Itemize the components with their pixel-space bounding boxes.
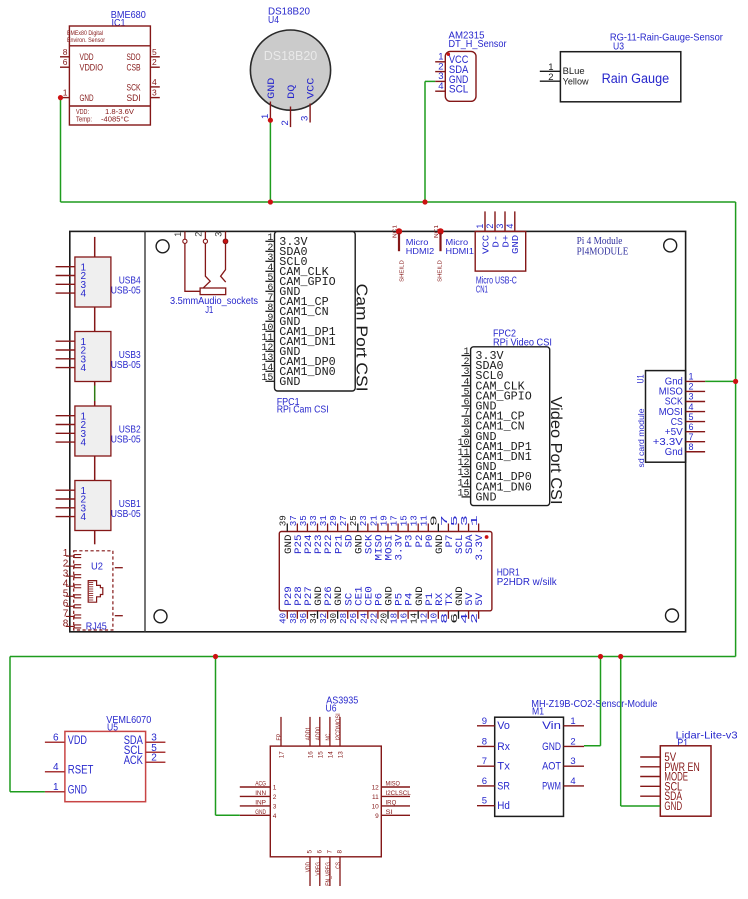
M1 pin 2 GND [542,736,584,752]
U2 pin 5 [63,588,81,599]
FPC2 pin 6 GND [462,398,497,414]
svg-text:P1: P1 [677,737,688,749]
svg-text:5: 5 [152,47,157,57]
svg-text:4: 4 [570,776,575,787]
FPC2 pin 3 SCL0 [462,367,504,383]
svg-text:3: 3 [495,224,505,229]
sensor AM2315 DT_H_Sensor title [449,30,507,50]
IC1 pin 3 SDI [127,88,160,104]
svg-text:BMEx80 Digital: BMEx80 Digital [67,30,103,37]
svg-text:4: 4 [81,363,87,374]
connector FPC1 body [275,231,356,391]
svg-text:VREG: VREG [315,862,322,876]
U5 pin 3 SDA [124,733,166,747]
FPC1 pin 3 SCL0 [265,253,307,269]
HDR1 pin 3 SDA (top) [459,515,476,554]
connector J1 3.5mm audio sockets label [170,295,258,316]
svg-text:2: 2 [689,382,694,392]
module PI4MODULE Pi 4 board outline [70,231,686,631]
HDR1 pin 35 P24 (top) [298,515,315,554]
wire GND to U1 pin1 [705,380,736,382]
svg-text:6: 6 [63,57,68,67]
svg-text:SCK: SCK [127,82,142,93]
connector P1 body [660,746,711,816]
svg-text:RPi Cam CSI: RPi Cam CSI [277,404,329,416]
svg-text:GND: GND [266,78,278,99]
U6 pin 17 EP (top) [276,717,285,758]
wire GND drop to M1 [600,657,602,746]
U5 pin 5 SCL [124,743,166,757]
sensor U6 AS3935 title [326,695,359,715]
FPC2 pin 2 SDA0 [462,357,504,373]
wire GND into U6 pin4 [216,814,240,816]
connector FPC2 body [471,347,550,506]
HDR1 pin 2 5V (bottom) [469,592,486,624]
connector CN1 label [476,274,517,295]
svg-text:INP: INP [255,799,266,806]
svg-text:1: 1 [570,716,575,727]
IC1 pin 6 VDDIO [60,57,103,73]
wire GND bottom bus horizontal [10,656,736,658]
CN1 pin 2 D- [485,211,501,247]
wire GND into P1 GND pin [621,805,661,807]
svg-text:RG-11-Rain-Gauge-Sensor: RG-11-Rain-Gauge-Sensor [610,31,723,43]
connector Micro HDMI1 pin NC1 [434,225,444,282]
AM2315 pin 2 SDA [435,61,469,76]
FPC2 pin 1 3.3V [462,347,504,363]
svg-text:6: 6 [53,733,59,744]
HDR1 pin 11 P0 (top) [419,515,436,548]
svg-text:-4085°C: -4085°C [101,115,129,123]
U6 pin 16 ADD1 (top) [305,717,314,758]
svg-text:1: 1 [63,88,68,98]
svg-text:2: 2 [152,57,157,67]
connector Micro HDMI1 label [446,238,474,256]
connector FPC1 reference label [277,396,329,416]
svg-text:M1: M1 [532,706,544,718]
svg-text:Vin: Vin [542,720,561,732]
U1 pin 2 MISO [659,382,705,398]
svg-text:2: 2 [273,794,277,801]
svg-text:7: 7 [689,432,694,442]
HDR1 pin 24 CE0 (bottom) [358,586,375,624]
M1 pin 1 Vin [542,716,584,732]
svg-text:1: 1 [475,224,485,229]
svg-text:3: 3 [152,88,157,98]
HDR1 pin 33 P23 (top) [308,515,325,554]
sensor AM2315 body [445,51,476,101]
svg-text:4: 4 [81,289,87,300]
svg-text:SDI: SDI [127,93,141,104]
FPC1 pin 7 CAM1_CP [265,293,328,309]
sensor U6 body [270,746,381,857]
HDR1 pin 1 3.3V (top) [469,515,486,561]
HDR1 pin 17 3.3V (top) [388,515,405,560]
mounting hole top-right [664,239,677,252]
FPC1 pin 10 CAM1_DP1 [261,323,335,339]
svg-text:8: 8 [482,736,487,747]
svg-text:U4: U4 [268,14,279,26]
svg-text:15: 15 [317,751,324,758]
svg-text:1.8-3.6V: 1.8-3.6V [105,109,134,116]
svg-text:5: 5 [307,850,314,854]
svg-text:1: 1 [273,785,277,792]
svg-text:1: 1 [53,782,59,793]
HDR1 pin 28 SC (bottom) [338,593,355,624]
svg-text:1: 1 [469,515,480,527]
HDR1 pin 12 P1 (bottom) [419,593,436,624]
svg-text:U6: U6 [326,703,337,715]
svg-text:11: 11 [372,794,379,801]
AM2315 pin 3 GND [435,71,468,86]
svg-text:SDO: SDO [127,52,141,63]
mounting hole bottom-left [154,610,167,623]
svg-text:8: 8 [63,47,68,57]
IC1 pin 8 VDD [60,47,94,63]
svg-text:GND: GND [542,741,561,753]
svg-text:INN: INN [255,790,266,797]
HDR1 pin 27 SD (top) [338,515,355,547]
U1 pin 7 +3.3V [653,432,705,448]
J1 pin 3 with switch contact [214,231,228,282]
HDR1 pin 36 P27 (bottom) [298,586,315,624]
svg-text:4: 4 [152,77,157,87]
svg-text:USB-05: USB-05 [111,434,141,446]
svg-text:8: 8 [63,619,69,630]
FPC1 pin 12 GND [261,343,300,359]
svg-text:9: 9 [482,716,487,727]
svg-text:VDDIO: VDDIO [80,63,104,74]
HDR1 pin 32 P26 (bottom) [318,586,335,624]
M1 pin 3 AOT [542,756,584,772]
U6 pin 1 ACG (left) [240,781,277,792]
svg-text:SR: SR [497,780,510,792]
svg-text:2: 2 [151,753,157,764]
sensor U3 RG-11 Rain Gauge title [610,31,723,52]
svg-text:NC1: NC1 [434,225,440,238]
sensor U4 DS18B20 body [250,30,330,110]
U2 pin 8 [63,619,81,630]
FPC1 pin 14 CAM1_DN0 [261,363,335,379]
svg-text:5V: 5V [475,592,486,606]
HDR1 pin 14 GND (bottom) [409,586,426,624]
svg-text:ACK: ACK [124,755,143,767]
svg-text:2: 2 [469,612,480,624]
HDR1 pin 7 P7 (top) [439,515,456,547]
HDR1 pin 34 GND (bottom) [308,586,325,624]
HDR1 pin 9 GND (top) [429,515,446,554]
svg-text:9: 9 [375,813,379,820]
sensor U3 body [560,52,680,102]
junction at U4 GND pin [268,118,273,123]
svg-text:10: 10 [372,803,380,810]
svg-text:VCC: VCC [306,78,318,99]
svg-text:Yellow: Yellow [563,76,589,87]
junction P1 drop on bottom bus [618,654,623,659]
svg-text:8: 8 [689,442,694,452]
svg-text:7: 7 [482,756,487,767]
svg-text:Hd: Hd [497,800,510,812]
U5 pin 6 VDD [45,733,87,747]
connector USB1 USB-05 body [56,481,141,531]
HDR1 pin 23 SCK (top) [358,515,375,554]
HDR1 pin 20 GND (bottom) [378,586,395,624]
IC1 pin 2 CSB [127,57,160,73]
mounting hole top-left [156,240,169,253]
svg-text:I2CLSCL: I2CLSCL [386,790,412,797]
svg-text:2: 2 [570,736,575,747]
svg-text:GND: GND [510,234,521,254]
FPC2 pin 7 CAM1_CP [462,408,525,424]
connector Micro HDMI2 pin NC1 [393,225,406,282]
junction AM2315 drop on top bus [422,199,427,204]
svg-text:Environ. Sensor: Environ. Sensor [67,37,106,44]
svg-text:PI4MODULE: PI4MODULE [577,247,629,258]
FPC2 pin 8 CAM1_CN [462,418,525,434]
HDR1 pin 26 CE1 (bottom) [348,586,365,624]
connector CN1 Micro USB-C body [475,231,526,271]
HDR1 pin 31 P22 (top) [318,515,335,554]
svg-text:DS18B20: DS18B20 [264,48,318,63]
svg-text:GND: GND [255,809,266,816]
svg-text:SHEILD: SHEILD [400,260,406,282]
svg-text:Vo: Vo [497,720,510,732]
svg-text:Gnd: Gnd [665,446,683,458]
HDR1 pin 15 P3 (top) [399,515,416,548]
connector FPC2 reference label [493,328,552,349]
FPC2 pin 11 CAM1_DN1 [457,448,531,464]
svg-text:BLue: BLue [563,66,585,77]
HDR1 pin 6 GND (bottom) [449,586,466,624]
svg-text:GND: GND [279,376,300,389]
IC1 pin 4 SCK [127,77,160,93]
connector USB4 USB-05 body [56,257,141,307]
svg-text:3: 3 [214,232,224,237]
svg-text:USB-05: USB-05 [111,285,141,297]
svg-text:4: 4 [438,81,443,92]
P1 pin SDA [640,791,682,803]
junction U1 Gnd on right vertical [733,379,738,384]
svg-text:15: 15 [457,488,469,499]
U4 pin 2 DQ [280,85,298,127]
CN1 pin 1 VCC [475,211,491,254]
svg-text:EN_VREG: EN_VREG [325,862,332,886]
U5 pin 1 GND [45,782,87,796]
svg-text:Pi 4 Module: Pi 4 Module [577,236,623,247]
svg-text:Rx: Rx [497,741,510,753]
module PI4MODULE label [577,236,629,258]
svg-text:Temp:: Temp: [76,116,92,123]
svg-text:ACG: ACG [255,781,266,788]
svg-text:GND: GND [475,491,496,504]
U6 pin 7 EN_VREG (bottom) [325,850,333,886]
svg-text:17: 17 [279,751,286,758]
HDR1 pin 13 P2 (top) [409,515,426,548]
AM2315 pin 4 SCL [435,81,468,96]
M1 pin 6 SR [477,776,510,792]
U6 pin 9 SI (right) [375,809,410,820]
svg-text:CN1: CN1 [476,283,488,295]
svg-text:3: 3 [570,756,575,767]
U2 pin 7 [63,609,81,620]
U4 pin 3 VCC [300,78,318,123]
wire USB1 bottom stub [94,531,96,545]
CN1 pin 4 GND [505,211,521,254]
P1 pin PWR EN [640,762,700,774]
U2 pin 6 [63,598,81,609]
svg-text:VDD:: VDD: [76,109,89,116]
svg-text:3.3V: 3.3V [475,534,486,561]
connector USB2 USB-05 body [56,406,141,456]
U6 pin 3 INP (left) [240,799,277,810]
svg-text:SI: SI [386,809,393,816]
svg-text:HDMI1: HDMI1 [446,247,474,256]
svg-text:Rain Gauge: Rain Gauge [602,71,670,87]
FPC1 pin 6 GND [265,283,300,299]
U6 pin 4 GND (left) [240,809,277,820]
U1 pin 8 Gnd [665,442,705,458]
FPC2 pin 4 CAM_CLK [462,377,525,393]
J1 sleeve bar [200,288,226,295]
wire GND drop to U6 [215,657,217,816]
svg-text:GND: GND [664,801,682,813]
svg-text:8: 8 [337,850,344,854]
HDR1 pin 21 MISO (top) [368,515,385,561]
svg-text:P2HDR w/silk: P2HDR w/silk [497,576,558,588]
M1 pin 8 Rx [477,736,510,752]
mounting hole bottom-right [666,609,679,622]
svg-text:I2CDMOSI: I2CDMOSI [335,713,342,740]
P1 pin GND [664,801,682,813]
svg-text:EP: EP [276,734,283,741]
FPC1 pin 15 GND [261,373,300,389]
connector HDR1 body [279,532,492,611]
svg-text:CS: CS [335,862,342,869]
U3 pin 1 BLue [540,62,585,77]
svg-text:1: 1 [689,372,694,382]
M1 pin 9 Vo [477,716,510,732]
svg-text:U3: U3 [613,40,624,52]
svg-text:VDD: VDD [68,735,87,747]
wire GND from AM2315 pin3 [425,81,435,202]
svg-text:4: 4 [81,438,87,449]
U5 pin 2 ACK [124,753,166,767]
connector HDR1 reference label [497,567,558,589]
svg-text:CSB: CSB [127,63,141,74]
U5 pin 4 RSET [45,762,94,776]
svg-text:ADD1: ADD1 [305,726,312,740]
wire USB4-USB3 [94,307,96,332]
svg-text:Micro: Micro [406,238,429,247]
FPC1 pin 9 GND [265,313,300,329]
wire GND into M1 pin2 [584,745,601,747]
svg-text:SCL: SCL [449,84,469,96]
U1 pin 1 Gnd [665,372,705,388]
J1 pin 2 with switch contact [194,231,211,287]
FPC1 pin 8 CAM1_CN [265,303,328,319]
sensor U5 VEML6070 title [106,714,151,734]
HDR1 pin 38 P28 (bottom) [288,586,305,624]
svg-text:13: 13 [338,751,345,758]
wire USB3-USB2 with net segment [94,382,96,407]
svg-text:2: 2 [280,120,291,125]
HDR1 pin 25 GND (top) [348,515,365,554]
svg-text:HDMI2: HDMI2 [406,247,434,256]
U6 pin 8 CS (bottom) [335,850,343,886]
HDR1 pin 39 GND (top) [278,515,295,554]
svg-text:U2: U2 [91,561,103,573]
svg-text:NC1: NC1 [393,225,399,238]
U6 pin 13 I2CDMOSI (top) [335,713,344,758]
svg-text:12: 12 [372,785,380,792]
svg-text:3.5mmAudio_sockets: 3.5mmAudio_sockets [170,295,258,307]
HDR1 pin 29 P21 (top) [328,515,345,554]
svg-text:Tx: Tx [497,761,510,773]
svg-text:J1: J1 [205,304,213,316]
sensor M1 MH-Z19B title [531,698,657,718]
svg-text:2: 2 [548,72,553,83]
U2 pin 1 [63,548,81,559]
connector USB3 USB-05 body [56,332,141,382]
svg-text:15: 15 [261,373,273,384]
svg-text:3: 3 [300,116,311,121]
svg-text:sd card module: sd card module [636,408,646,467]
FPC2 pin 15 GND [457,488,496,504]
U1 pin 6 +5V [665,422,705,438]
FPC1 pin 4 CAM_CLK [265,263,328,279]
svg-text:USB-05: USB-05 [111,359,141,371]
wire GND into U5 pin1 [10,791,45,793]
J1 pin 1 [173,231,200,291]
M1 pin 7 Tx [477,756,510,772]
svg-text:4: 4 [81,512,87,523]
FPC2 pin 13 CAM1_DP0 [457,468,531,484]
HDR1 pin 40 P29 (bottom) [278,586,295,624]
svg-text:3: 3 [273,803,277,810]
svg-text:14: 14 [327,751,334,758]
svg-text:7: 7 [326,850,333,854]
sensor M1 body [495,717,564,816]
FPC1 pin 13 CAM1_DP0 [261,353,335,369]
wire GND drop to P1 [620,657,622,807]
wire GND right side vertical [735,202,737,657]
IC1 pin 5 SDO [127,47,160,63]
junction at IC1 GND pin [58,95,63,100]
M1 pin 4 PWM [542,776,584,792]
svg-text:ADD0: ADD0 [315,726,322,740]
svg-text:4: 4 [53,762,59,773]
IC1 pin 1 GND [60,88,94,104]
svg-text:Video Port CSI: Video Port CSI [547,397,564,505]
HDR1 pin 5 SCL (top) [449,515,466,554]
svg-text:1: 1 [173,232,183,237]
svg-text:5: 5 [689,412,694,422]
U6 pin 5 VDD (bottom) [305,850,313,886]
FPC1 side label Cam Port CSI [352,284,369,392]
svg-text:6: 6 [482,776,487,787]
svg-text:DT_H_Sensor: DT_H_Sensor [449,38,507,50]
junction U4 drop on top bus [268,199,273,204]
U6 pin 15 ADD0 (top) [315,717,324,758]
svg-text:RJ45: RJ45 [86,621,107,633]
U6 pin 2 INN (left) [240,790,277,801]
HDR1 pin 37 P25 (top) [288,515,305,554]
FPC2 pin 5 CAM_GPIO [462,387,532,403]
svg-text:GND: GND [80,93,94,104]
connector U2 RJ45 body [74,551,123,633]
svg-text:PWM: PWM [542,780,561,792]
svg-text:NC: NC [325,733,332,740]
